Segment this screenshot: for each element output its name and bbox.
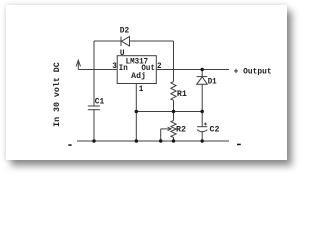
svg-text:2: 2 [157,63,162,71]
capacitor C1 [88,106,100,110]
wire R2 wiper horizontal [161,128,170,130]
svg-text:D1: D1 [208,78,217,86]
wire top D2 branch right segment [130,40,174,42]
diode D1 [197,77,208,85]
node ground rail wiper junction [159,139,162,142]
wire input (arrow to pin 3) [78,69,117,71]
svg-text:In: In [119,65,128,73]
wire R1 bottom lead [173,100,175,111]
wire R2 top lead [173,112,175,121]
svg-text:D2: D2 [120,27,130,35]
minus label output [237,144,241,146]
page background [6,5,287,160]
wire left vertical lower (C1 to ground rail) [93,110,95,141]
op-amp U1 regulator box LM317 [117,56,156,84]
node ground rail R2 junction [172,139,175,142]
node ground rail C1 junction [92,139,95,142]
svg-text:C1: C1 [95,99,105,107]
wire ground rail [77,140,229,142]
wire adj lead (pin 1 to adj rail) [135,84,137,112]
resistor R1 [171,82,176,101]
node adj rail R1 junction [172,110,175,113]
svg-text:In 30 volt DC: In 30 volt DC [52,62,62,127]
wire right vertical (top wire through output wire to R1) [173,41,175,82]
wire C2 bottom lead [201,132,203,141]
svg-text:1: 1 [139,86,144,94]
capacitor C2 (polarized) [197,123,207,132]
svg-text:Out: Out [141,65,155,73]
svg-text:U: U [120,50,125,58]
svg-text:R1: R1 [177,91,187,99]
node ground rail adj-wire junction [135,139,138,142]
wire adj rail [136,111,202,113]
wire R2 bottom lead [173,138,175,142]
wire adj rail to ground rail [135,112,137,142]
wire R2 wiper vertical to ground rail [160,129,162,141]
node output/D1 junction [201,68,204,71]
input terminal arrow [76,60,80,69]
R2 wiper arrowhead [168,127,171,131]
svg-text:C2: C2 [210,126,220,134]
wire left vertical upper (top wire to C1) [93,41,95,106]
wire C2 top lead [201,112,203,127]
node adj rail left junction [135,110,138,113]
wire output (pin 2 to + Output) [156,69,229,71]
resistor R2 (potentiometer) [171,121,176,138]
node ground rail C2 junction [201,139,204,142]
minus label input [68,144,71,146]
wire D1 top lead [201,70,203,77]
wire top D2 branch left segment [94,40,121,42]
svg-text:+ Output: + Output [234,68,272,76]
svg-text:Adj: Adj [131,73,146,81]
svg-text:R2: R2 [176,127,186,135]
diode D2 [121,37,130,47]
svg-text:3: 3 [112,63,117,71]
node adj rail D1/C2 junction [201,110,204,113]
wire D1 bottom lead to adj rail [201,84,203,111]
